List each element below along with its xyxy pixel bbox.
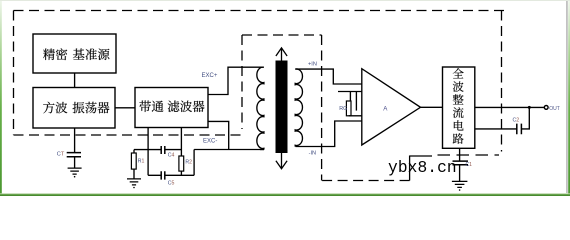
svg-text:C2: C2 [513,118,520,124]
ground under C1 [452,181,468,187]
ground under R1 [127,179,141,185]
wire rectifier to OUT [475,106,544,108]
transformer dashed box top edge [242,34,322,36]
secondary coil [295,69,302,147]
wire C5 right up to EXC- line [193,150,195,176]
page bottom green bar [0,193,570,196]
svg-text:CT: CT [57,151,65,157]
resistor RG [346,101,351,116]
svg-text:C1: C1 [466,162,473,168]
wire filter bottom left vertical [147,128,149,175]
block: full wave rectifier circuit (vertical text) [443,67,475,148]
svg-text:+IN: +IN [308,62,317,68]
wire rectifier bottom to C1 [459,148,461,161]
wire reference to oscillator [74,73,76,88]
svg-text:C4: C4 [168,153,175,159]
dashed corner vertical right of watermark [409,156,411,181]
transformer dashed box right edge [321,35,323,181]
svg-text:OUT: OUT [549,106,560,112]
ground under CT [68,168,82,174]
capacitor CT [67,153,81,157]
wire amp output [421,106,443,108]
wire oscillator to bandpass filter [115,107,135,109]
wire R1 top [133,150,135,153]
OUT terminal circle [544,106,548,110]
core arrow up [276,48,287,61]
page right green edge [568,0,570,196]
svg-text:R1: R1 [138,159,145,165]
resistor R1 [131,153,136,169]
block: precision reference source (jingmi jizhunyuan) [33,34,116,73]
svg-text:-IN: -IN [309,150,316,156]
bottom dashed edge under amplifier [322,180,410,182]
EXC+ wire filter to primary top [208,67,264,94]
wire oscillator bottom to CT [74,128,76,153]
gain pin wire vertical stub [355,92,357,111]
svg-text:EXC-: EXC- [203,138,217,144]
wire filter bottom right vertical [180,128,182,157]
wire primary bottom [260,149,264,151]
svg-text:ybx8.cn: ybx8.cn [388,159,457,177]
-IN wire [296,121,363,147]
resistor R2 [179,156,184,171]
core arrow down [276,153,287,169]
capacitor C2 [517,124,522,135]
outer dashed box bottom-left edge [14,134,243,136]
primary coil [257,67,264,149]
page right grey border line [566,0,567,193]
outer dashed box left edge [13,11,15,136]
wire C2 to OUT line [521,107,529,128]
gain pin wire lower [349,115,362,117]
wire CT to ground [74,157,76,168]
capacitor C1 [453,161,469,165]
outer dashed box right edge [501,11,503,152]
block: square wave oscillator (fangbo zhendangqi) [33,88,115,129]
EXC- wire filter down [208,121,229,149]
node wire R1-C4-R2 (upper horizontal) [134,149,181,151]
transformer dashed box left edge [241,35,243,129]
+IN wire [296,69,363,84]
wire R1 to ground [133,169,135,179]
wire rectifier second output to C2 [475,128,517,130]
lower horizontal wire through C5 [148,174,194,176]
page top light edge [0,0,570,1]
op-amp A triangle [362,69,421,145]
gain pin wire upper [338,92,362,102]
EXC- horizontal to primary bottom [194,149,260,151]
outer dashed box bottom-right segment [438,154,500,156]
outer dashed box top edge [14,10,505,12]
wire C1 to ground [459,165,461,182]
wire R2 bottom [180,171,182,175]
svg-text:R2: R2 [185,160,192,166]
movable core bar [276,61,288,154]
capacitor C5 [161,171,165,179]
block: bandpass filter (daitong lvboqi) [135,88,208,128]
svg-text:RG: RG [339,106,347,112]
junction dot C2/OUT [528,106,531,109]
svg-text:EXC+: EXC+ [202,73,218,79]
svg-text:C5: C5 [168,181,175,187]
capacitor C4 [161,146,165,154]
page left green edge [0,0,2,196]
